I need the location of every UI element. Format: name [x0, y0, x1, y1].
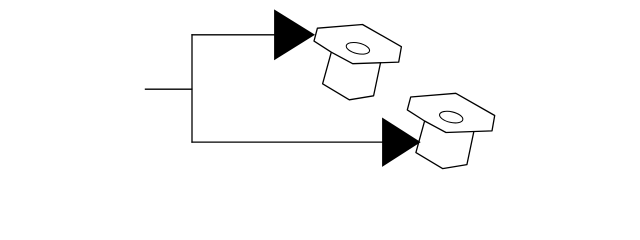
arrowhead 1 (to nut 1) [274, 9, 315, 60]
arrowhead 2 (to nut 2) [382, 118, 421, 167]
nut 2 (lower fastener) [407, 93, 494, 168]
wire vertical [191, 34, 193, 143]
wire top branch [191, 34, 274, 36]
nut 1 (upper fastener) [314, 25, 401, 100]
wire bottom branch [191, 141, 382, 143]
wire stub (left lead) [145, 88, 193, 90]
